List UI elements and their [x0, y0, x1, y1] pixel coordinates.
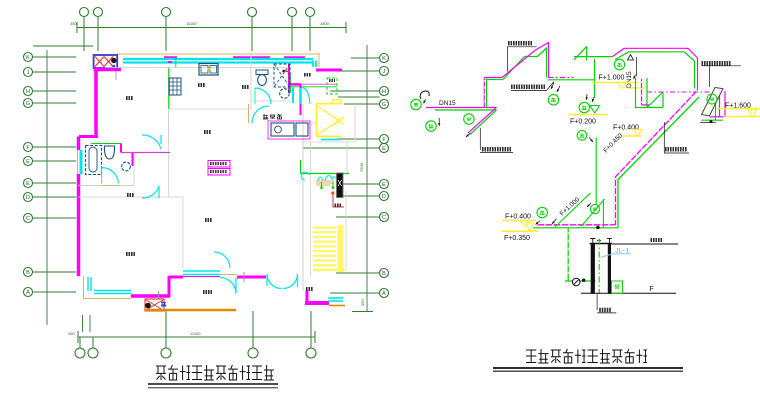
- svg-text:J: J: [27, 70, 30, 76]
- top right label: [702, 61, 731, 66]
- svg-text:E: E: [26, 181, 30, 187]
- label boxes: [208, 161, 230, 168]
- shower box: [274, 64, 290, 87]
- laundry text: [263, 114, 268, 119]
- sink left round: [122, 162, 131, 171]
- faucet squiggles cyan: [301, 172, 309, 180]
- round basin top: [280, 89, 290, 99]
- svg-text:G: G: [382, 102, 386, 108]
- svg-text:250: 250: [70, 21, 77, 26]
- label F mid-right: [665, 147, 687, 152]
- interior partitions: [169, 68, 171, 109]
- svg-text:B: B: [26, 270, 30, 276]
- tan counter lines: [316, 180, 334, 182]
- svg-text:C: C: [382, 215, 386, 221]
- svg-text:F+0.200: F+0.200: [570, 119, 596, 126]
- dashdot + horiz: [549, 77, 574, 79]
- left wall jog: [79, 135, 98, 138]
- bottom-right cyan: [328, 297, 343, 299]
- svg-text:E: E: [26, 159, 30, 165]
- svg-text:G: G: [26, 101, 30, 107]
- big diagonal up: [503, 48, 547, 80]
- green valve box: [612, 281, 623, 294]
- center knot: [635, 78, 637, 108]
- svg-text:A: A: [382, 291, 386, 297]
- top-right wing wall magenta: [316, 69, 342, 72]
- floor line F: [581, 292, 676, 294]
- bottom window mid cyan: [183, 270, 220, 272]
- interior face line top: [105, 67, 285, 69]
- svg-text:J: J: [383, 69, 386, 75]
- black shaft: [337, 173, 344, 198]
- black triangle + DN15 vertical: [628, 55, 634, 61]
- corridor door arcs: [142, 135, 161, 149]
- small green taps: [321, 182, 323, 187]
- double door arcs: [267, 274, 282, 289]
- circle xi2: [614, 59, 624, 69]
- wing door arc cyan: [302, 87, 310, 104]
- dashdot horizontal: [647, 91, 710, 93]
- jog triangle: [574, 56, 612, 58]
- top right pipes: [612, 48, 624, 56]
- device bracket dashed green: [327, 78, 337, 94]
- magenta under flue: [94, 68, 121, 72]
- room label blobs: [198, 83, 205, 87]
- left bath window cyan: [80, 150, 83, 174]
- orange thick bottom line: [145, 309, 236, 312]
- bottom wall magenta 2: [237, 276, 266, 279]
- label top F: [508, 41, 532, 46]
- left wall upper magenta: [94, 70, 98, 137]
- down to meter: [567, 228, 569, 281]
- svg-text:C: C: [26, 216, 30, 222]
- svg-text:D: D: [26, 195, 30, 201]
- top wall magenta segments: [164, 56, 177, 60]
- leader JL label: [479, 128, 481, 150]
- svg-text:H: H: [382, 89, 386, 95]
- svg-text:7500: 7500: [359, 162, 364, 172]
- kitchen sink: [199, 64, 218, 76]
- top window cyan band: [123, 58, 313, 60]
- svg-text:E: E: [382, 146, 386, 152]
- svg-text:F+1.000: F+1.000: [599, 75, 625, 82]
- circle pen2: [537, 207, 547, 217]
- laundry green pipe: [300, 160, 302, 174]
- room door arc lower mid: [214, 252, 230, 268]
- svg-text:A: A: [26, 290, 30, 296]
- thin magenta under band: [183, 276, 220, 278]
- circle xi1: [548, 95, 558, 105]
- bottom red X box: [145, 299, 164, 311]
- blue valve glyph: [161, 301, 166, 306]
- svg-text:K: K: [382, 56, 386, 62]
- circle yu: [411, 99, 421, 109]
- branch diagonals: [581, 199, 604, 226]
- bottom-right corner wall: [306, 291, 309, 305]
- door arc bottom mid: [220, 278, 236, 294]
- stairs yellow: [313, 226, 336, 228]
- shower symbol: [420, 91, 429, 99]
- stove hatched: [169, 78, 181, 95]
- svg-text:1500: 1500: [320, 21, 330, 26]
- water meter: [565, 280, 596, 282]
- tan top exterior line: [117, 53, 319, 55]
- svg-text:K: K: [26, 55, 30, 61]
- long diagonal with bend: [616, 90, 698, 177]
- circle tang1: [426, 121, 436, 131]
- circle tang2: [579, 102, 589, 112]
- svg-text:11100: 11100: [186, 21, 197, 26]
- yellow X box: [317, 104, 343, 137]
- red riser mark: [331, 191, 334, 194]
- washer units: [268, 121, 310, 139]
- top axis circles: [80, 8, 89, 17]
- floor line 1: [612, 243, 678, 245]
- svg-text:B: B: [382, 271, 386, 277]
- bathroom door arc: [102, 168, 119, 184]
- left wall lower magenta: [77, 137, 81, 151]
- pipe diagonal down-left: [470, 110, 497, 135]
- B leader inner: [336, 272, 379, 274]
- top dimension line: [77, 27, 346, 29]
- bottom dimension line: [78, 336, 315, 338]
- yinruguan leader: [596, 294, 598, 310]
- pipes behind plate: [719, 92, 721, 117]
- flue box top-left: [94, 55, 118, 68]
- stair hall bounds: [310, 142, 312, 277]
- circle valve2: [590, 204, 599, 213]
- riser black bars: [591, 243, 595, 294]
- plate parallelogram: [702, 88, 723, 116]
- riser green dashdot: [598, 239, 600, 294]
- vertical pipe pair: [486, 79, 488, 108]
- pipe DN15 line: [435, 109, 497, 111]
- svg-text:F+0.400: F+0.400: [613, 125, 639, 132]
- svg-text:D: D: [382, 194, 386, 200]
- bottom axis circles: [75, 348, 85, 358]
- svg-text:11100: 11100: [190, 331, 201, 336]
- left title: [156, 366, 166, 380]
- bathroom walls: [91, 143, 121, 145]
- svg-text:250: 250: [68, 331, 75, 336]
- horiz to big diagonal: [487, 79, 504, 81]
- wing walls thin: [301, 83, 338, 85]
- svg-text:F: F: [649, 286, 653, 293]
- left axis circles: [24, 53, 33, 62]
- bottom-right orange: [329, 305, 345, 307]
- bottom wall magenta: [131, 294, 170, 298]
- bathtub dashed: [86, 146, 102, 175]
- right axis circles: [380, 54, 389, 63]
- toilet left: [105, 146, 115, 159]
- svg-text:H: H: [26, 89, 30, 95]
- lower horizontals: [536, 224, 616, 226]
- svg-text:F+0.350: F+0.350: [504, 235, 530, 242]
- svg-text:E: E: [382, 182, 386, 188]
- kitchen door frame marks: [168, 61, 172, 63]
- circle valve1: [464, 114, 474, 124]
- bottom-left tan corner: [83, 276, 85, 299]
- down to F0.200 valve: [594, 59, 596, 98]
- svg-text:DN15: DN15: [626, 71, 633, 88]
- hall door arcs: [255, 88, 271, 104]
- bottom step wall: [168, 276, 171, 297]
- svg-text:DN15: DN15: [439, 100, 456, 107]
- circle pen1: [577, 131, 587, 141]
- svg-text:F+0.400: F+0.400: [505, 214, 531, 221]
- right title: [526, 350, 536, 363]
- label weishengjian: [511, 85, 545, 90]
- bottom-left window cyan: [87, 277, 89, 291]
- svg-text:250: 250: [360, 299, 365, 306]
- WC top: [256, 70, 268, 75]
